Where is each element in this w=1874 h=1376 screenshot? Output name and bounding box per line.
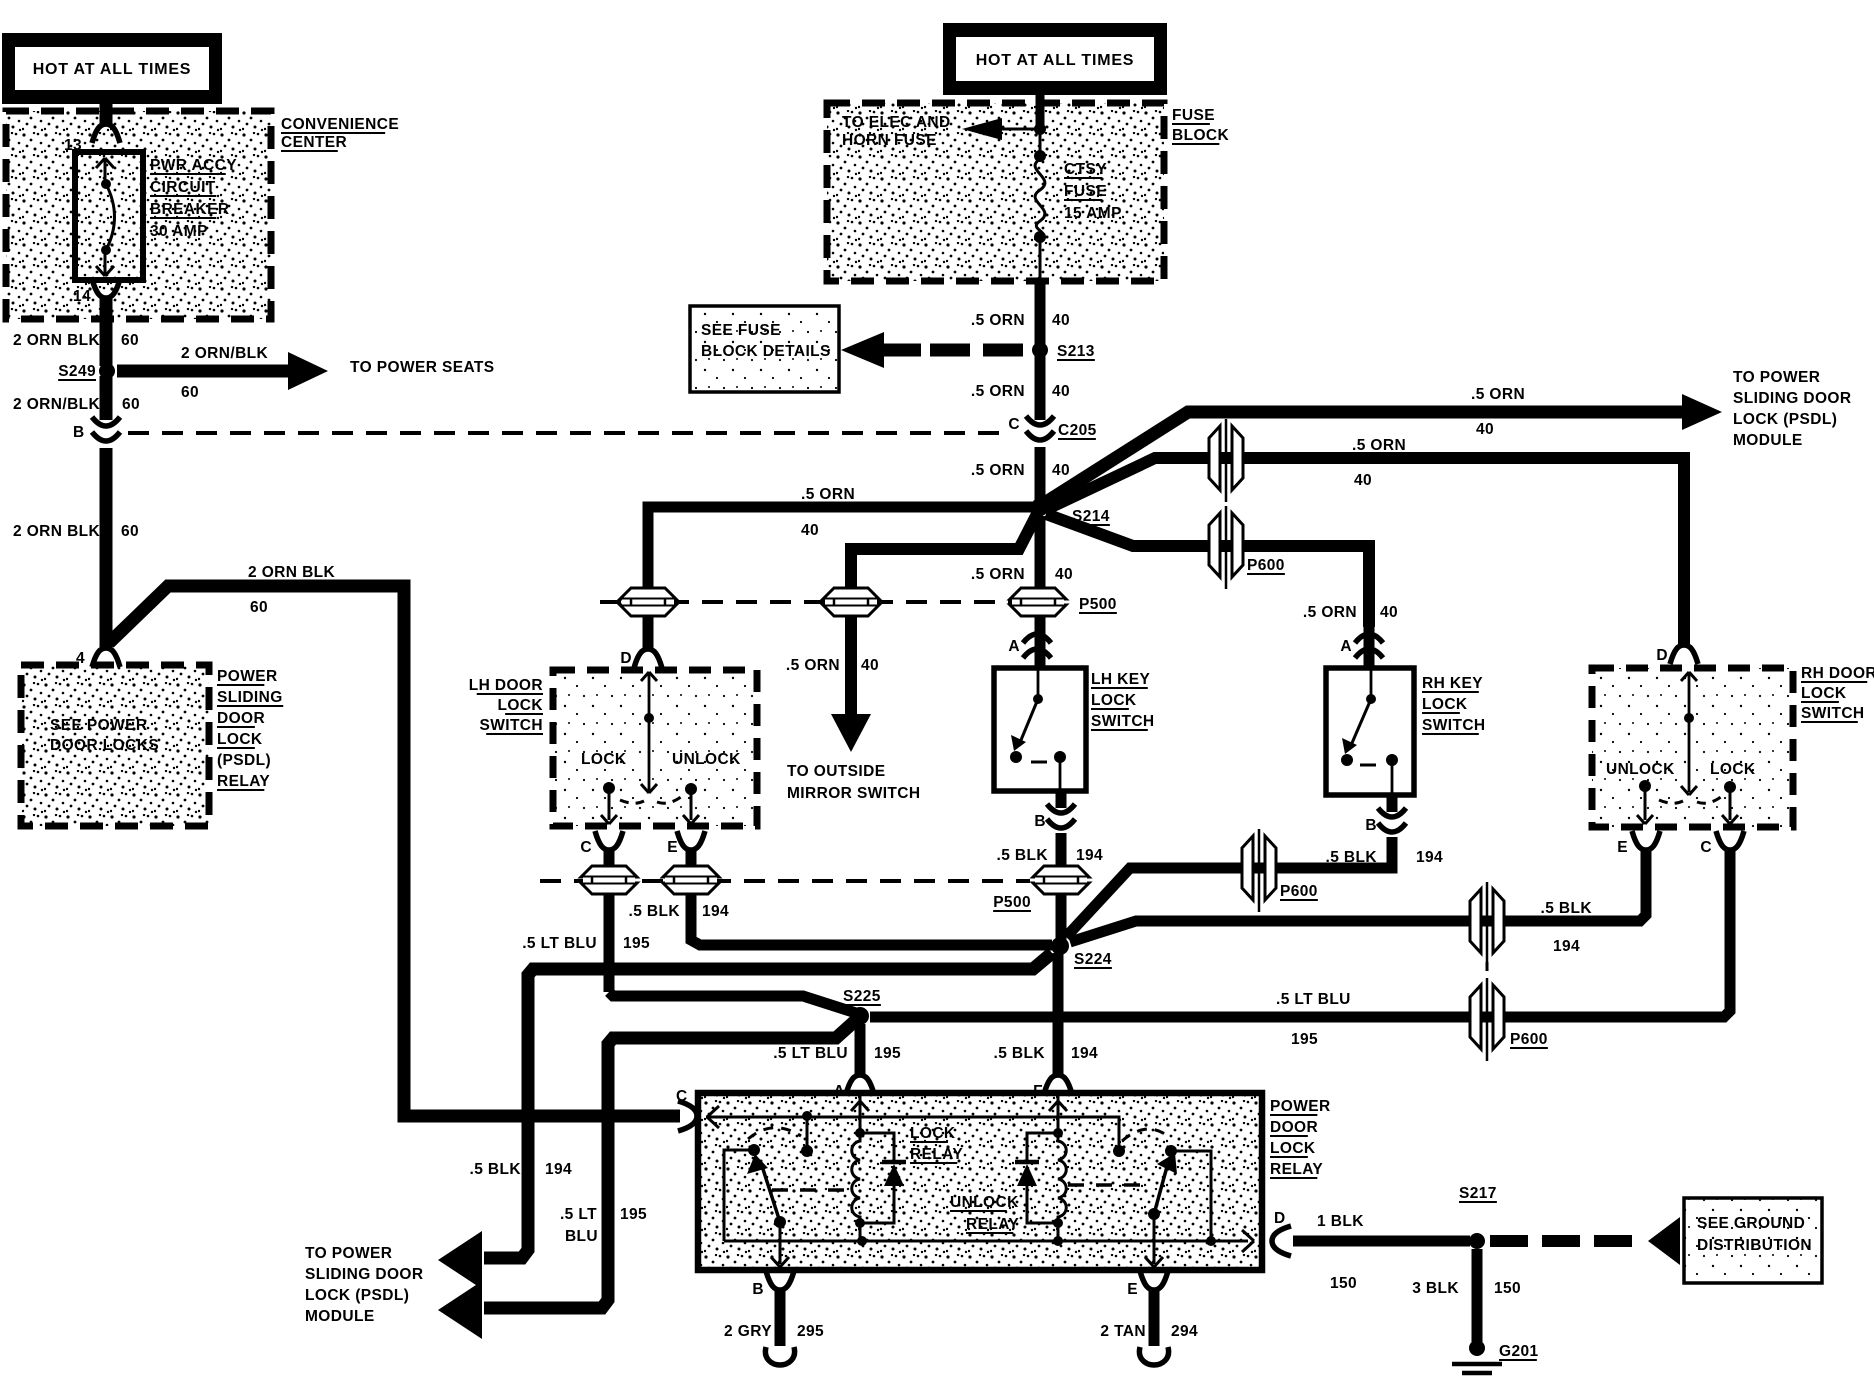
connector D of LH door lock switch — [634, 649, 662, 668]
lock relay armature — [762, 1166, 780, 1222]
svg-text:C: C — [580, 839, 592, 856]
unlock relay fixed contact — [1113, 1145, 1125, 1157]
wire .5 ORN 40 down to LH key lock switch pin A — [1035, 516, 1046, 590]
svg-text:.5 ORN: .5 ORN — [971, 383, 1025, 400]
pass-through grommet (upper P600) — [1225, 419, 1228, 502]
wire 2 ORN BLK 60 from breaker to S249 — [100, 296, 113, 366]
SEE GROUND DISTRIBUTION box — [1684, 1198, 1822, 1283]
wire .5 BLK 194 from E through grommet — [691, 848, 1052, 945]
lock relay armature contact — [748, 1144, 760, 1156]
connector C of LH door lock switch — [595, 831, 623, 850]
svg-text:BLOCK DETAILS: BLOCK DETAILS — [701, 343, 831, 360]
wire 2 TAN 294 — [1149, 1288, 1160, 1346]
connector at end of 2 TAN wire — [1139, 1347, 1168, 1365]
svg-text:RELAY: RELAY — [966, 1216, 1019, 1233]
CTSY FUSE 15 AMP fuse element — [1035, 159, 1045, 236]
dashed travel arcs — [1659, 800, 1683, 803]
svg-text:14: 14 — [73, 288, 91, 305]
RH KEY LOCK SWITCH box — [1326, 668, 1414, 795]
bulkhead dashed line P500 (lower row) — [540, 879, 1030, 883]
svg-text:150: 150 — [1330, 1275, 1357, 1292]
connector D of RH door lock switch — [1670, 645, 1698, 664]
svg-text:C: C — [1700, 839, 1712, 856]
wire .5 ORN 40 to RH door lock switch pin D — [1045, 458, 1684, 645]
svg-text:RELAY: RELAY — [910, 1146, 963, 1163]
svg-text:30 AMP: 30 AMP — [150, 223, 208, 240]
svg-text:.5 ORN: .5 ORN — [801, 486, 855, 503]
svg-text:LOCK: LOCK — [1270, 1140, 1316, 1157]
svg-text:E: E — [667, 839, 678, 856]
svg-text:S249: S249 — [58, 363, 96, 380]
lock relay fixed contact — [802, 1111, 812, 1121]
connector E of LH door lock switch — [677, 831, 705, 850]
svg-text:294: 294 — [1171, 1323, 1198, 1340]
wire .5 ORN 40 from C205 to S214 — [1035, 447, 1046, 503]
splice S213 — [1032, 342, 1048, 358]
svg-text:LOCK: LOCK — [217, 731, 263, 748]
wire .5 BLK 194 from E to S224 via grommet — [1070, 848, 1646, 942]
svg-text:194: 194 — [1553, 938, 1580, 955]
svg-text:CENTER: CENTER — [281, 134, 347, 151]
branch to elec and horn fuse — [1002, 128, 1040, 131]
svg-text:TO POWER: TO POWER — [305, 1245, 392, 1262]
hot-at-all-times feed box (left) — [2, 33, 222, 104]
switch plunger (center, from D) — [1681, 672, 1689, 681]
svg-text:40: 40 — [861, 657, 879, 674]
svg-text:BREAKER: BREAKER — [150, 201, 229, 218]
svg-text:LOCK: LOCK — [581, 751, 627, 768]
svg-text:DOOR: DOOR — [1270, 1119, 1318, 1136]
svg-text:(PSDL): (PSDL) — [217, 752, 271, 769]
svg-text:POWER: POWER — [1270, 1098, 1331, 1115]
svg-text:SLIDING DOOR: SLIDING DOOR — [1733, 390, 1851, 407]
svg-text:.5 BLK: .5 BLK — [1541, 900, 1593, 917]
svg-text:C: C — [676, 1088, 688, 1105]
svg-text:G201: G201 — [1499, 1343, 1539, 1360]
svg-text:FUSE: FUSE — [1172, 107, 1215, 124]
svg-text:SWITCH: SWITCH — [1801, 705, 1865, 722]
svg-text:CONVENIENCE: CONVENIENCE — [281, 116, 399, 133]
svg-text:S214: S214 — [1072, 508, 1110, 525]
svg-text:.5 BLK: .5 BLK — [997, 847, 1049, 864]
fuse block box — [827, 103, 1164, 281]
convenience center box — [6, 111, 271, 319]
svg-text:LH KEY: LH KEY — [1091, 671, 1151, 688]
arrow to outside mirror switch — [831, 714, 871, 752]
svg-text:2 ORN BLK: 2 ORN BLK — [248, 564, 336, 581]
svg-text:C205: C205 — [1058, 422, 1097, 439]
svg-text:HORN FUSE: HORN FUSE — [842, 132, 937, 149]
svg-text:LOCK: LOCK — [497, 697, 543, 714]
POWER DOOR LOCK RELAY box — [698, 1093, 1262, 1270]
LH KEY LOCK SWITCH box — [994, 668, 1086, 791]
svg-text:60: 60 — [181, 384, 199, 401]
unlock relay diode — [1027, 1133, 1058, 1160]
svg-text:40: 40 — [1055, 566, 1073, 583]
svg-text:LOCK: LOCK — [1801, 685, 1847, 702]
svg-text:194: 194 — [702, 903, 729, 920]
svg-text:CIRCUIT: CIRCUIT — [150, 179, 216, 196]
relay pin B wire — [779, 1222, 782, 1264]
internal feed rail from C — [706, 1117, 1119, 1147]
LOCK contact of RH door switch — [1724, 781, 1736, 793]
svg-text:195: 195 — [874, 1045, 901, 1062]
svg-text:LH DOOR: LH DOOR — [469, 677, 543, 694]
svg-text:195: 195 — [623, 935, 650, 952]
svg-text:194: 194 — [1416, 849, 1443, 866]
switch contacts inside LH key switch — [1037, 668, 1040, 695]
svg-text:RH KEY: RH KEY — [1422, 675, 1483, 692]
relay pin A wire and lock relay coil — [859, 1093, 862, 1133]
svg-text:PWR ACCY: PWR ACCY — [150, 157, 237, 174]
svg-text:60: 60 — [122, 396, 140, 413]
svg-text:.5 ORN: .5 ORN — [971, 462, 1025, 479]
svg-text:RELAY: RELAY — [1270, 1161, 1323, 1178]
in-line connector C205 — [1026, 416, 1054, 425]
wire .5 BLK 194 from S224 down to relay pin F — [1053, 953, 1064, 1076]
wire from LH door C into S225 — [609, 992, 856, 1013]
svg-text:BLU: BLU — [565, 1228, 598, 1245]
switch contacts inside RH key switch — [1370, 668, 1373, 695]
splice dot S225 — [851, 1007, 869, 1025]
switch plunger (center, from D) — [641, 672, 649, 681]
svg-text:60: 60 — [250, 599, 268, 616]
connector B of RH key lock switch — [1387, 795, 1398, 812]
UNLOCK contact of RH door switch — [1639, 780, 1651, 792]
dashed travel arcs — [620, 800, 644, 803]
svg-text:40: 40 — [1476, 421, 1494, 438]
svg-text:SWITCH: SWITCH — [479, 717, 543, 734]
svg-text:RH DOOR: RH DOOR — [1801, 665, 1874, 682]
lock relay diode — [860, 1133, 894, 1160]
wire 2 GRY 295 — [775, 1288, 786, 1346]
connector E of door lock relay — [1140, 1271, 1168, 1290]
svg-text:B: B — [1365, 817, 1377, 834]
svg-text:.5 BLK: .5 BLK — [629, 903, 681, 920]
wire .5 ORN 40 to outside mirror switch — [851, 512, 1038, 590]
svg-text:B: B — [73, 424, 85, 441]
wire .5 LT BLU 195 from C to S225 via P600 — [870, 848, 1730, 1017]
junction dots above CTSY fuse — [1034, 123, 1046, 135]
dashed arc over unlock armature — [1122, 1129, 1168, 1141]
svg-text:60: 60 — [121, 332, 139, 349]
svg-text:P500: P500 — [1079, 596, 1117, 613]
svg-text:F: F — [1033, 1083, 1043, 1100]
svg-text:.5 ORN: .5 ORN — [1471, 386, 1525, 403]
svg-text:D: D — [1656, 647, 1668, 664]
svg-text:LOCK: LOCK — [1710, 761, 1756, 778]
wire from hot box to breaker pin 13 — [100, 104, 113, 126]
bulkhead dashed line P500 (upper row) — [600, 600, 1012, 604]
svg-text:LOCK: LOCK — [910, 1125, 956, 1142]
svg-text:S224: S224 — [1074, 951, 1112, 968]
svg-text:.5 ORN: .5 ORN — [1303, 604, 1357, 621]
svg-text:S217: S217 — [1459, 1185, 1497, 1202]
internal ground rail to D — [724, 1240, 1248, 1243]
svg-text:CTSY: CTSY — [1064, 161, 1107, 178]
connector D of door lock relay — [1272, 1226, 1291, 1256]
svg-text:LOCK (PSDL): LOCK (PSDL) — [1733, 411, 1837, 428]
svg-text:2 ORN/BLK: 2 ORN/BLK — [13, 396, 101, 413]
dashed wire to SEE FUSE BLOCK DETAILS — [930, 344, 1028, 357]
wire 2 ORN BLK 60 from B down to PSDL relay pin 4 — [100, 448, 113, 648]
svg-text:P600: P600 — [1247, 557, 1285, 574]
branch wire 2 ORN BLK 60 to door lock relay pin C — [109, 586, 680, 1116]
circuit breaker PWR ACCY 30A — [75, 152, 143, 280]
dashed harness line from B to C205 — [128, 431, 1004, 435]
connector at end of 2 GRY wire — [765, 1347, 794, 1365]
grommet on mirror switch wire — [845, 590, 857, 714]
connector C of RH door lock switch — [1716, 831, 1744, 850]
svg-text:SWITCH: SWITCH — [1091, 713, 1155, 730]
dashed wire to SEE GROUND DISTRIBUTION — [1490, 1235, 1640, 1247]
splice S217 — [1469, 1233, 1485, 1249]
ground G201 — [1469, 1340, 1485, 1356]
wire 2 ORN/BLK 60 to power seats — [117, 365, 290, 378]
wire 1 BLK 150 from relay D to S217 — [1293, 1236, 1470, 1247]
svg-text:SEE POWER: SEE POWER — [50, 717, 147, 734]
svg-text:DOOR: DOOR — [217, 710, 265, 727]
connector pin 4 of PSDL relay — [92, 648, 120, 667]
svg-text:MODULE: MODULE — [305, 1308, 375, 1325]
wire .5 BLK 194 from RH key B to S224 via P600 — [1066, 837, 1392, 937]
svg-text:3 BLK: 3 BLK — [1412, 1280, 1459, 1297]
svg-text:RELAY: RELAY — [217, 773, 270, 790]
svg-text:FUSE: FUSE — [1064, 183, 1107, 200]
wire from hot box into fuse block — [1036, 95, 1045, 129]
svg-text:HOT AT ALL TIMES: HOT AT ALL TIMES — [976, 52, 1135, 69]
svg-text:.5 ORN: .5 ORN — [971, 312, 1025, 329]
svg-text:SEE FUSE: SEE FUSE — [701, 322, 781, 339]
svg-text:60: 60 — [121, 523, 139, 540]
svg-text:40: 40 — [1052, 312, 1070, 329]
svg-text:194: 194 — [1076, 847, 1103, 864]
svg-text:TO POWER: TO POWER — [1733, 369, 1820, 386]
bulkhead dashed link — [1486, 962, 1489, 976]
connector E of RH door lock switch — [1632, 831, 1660, 850]
svg-text:MODULE: MODULE — [1733, 432, 1803, 449]
UNLOCK contact of LH door switch — [685, 783, 697, 795]
svg-text:295: 295 — [797, 1323, 824, 1340]
wire 2 ORN/BLK 60 from S249 to connector B — [100, 376, 113, 420]
svg-text:2 TAN: 2 TAN — [1100, 1323, 1146, 1340]
connector C of door lock relay — [678, 1101, 697, 1131]
connector pin 13 — [92, 124, 120, 143]
svg-text:TO ELEC AND: TO ELEC AND — [842, 114, 951, 131]
svg-text:.5 BLK: .5 BLK — [470, 1161, 522, 1178]
svg-text:D: D — [1274, 1210, 1286, 1227]
svg-text:2 ORN/BLK: 2 ORN/BLK — [181, 345, 269, 362]
connector F of door lock relay — [1044, 1075, 1072, 1094]
svg-text:LOCK: LOCK — [1091, 692, 1137, 709]
svg-text:S213: S213 — [1057, 343, 1095, 360]
wire .5 ORN 40 to RH key lock switch pin A — [1046, 514, 1369, 627]
svg-text:E: E — [1127, 1281, 1138, 1298]
svg-text:A: A — [1008, 638, 1020, 655]
relay pin F wire and unlock relay coil — [1057, 1093, 1060, 1133]
svg-text:B: B — [1034, 813, 1046, 830]
RH DOOR LOCK SWITCH box — [1592, 668, 1793, 827]
svg-text:40: 40 — [1380, 604, 1398, 621]
connector A of door lock relay — [846, 1075, 874, 1094]
dashed arc over lock armature — [748, 1128, 801, 1139]
svg-text:.5 LT BLU: .5 LT BLU — [1276, 991, 1351, 1008]
wire .5 LT BLU 195 from S225 down to relay pin A — [855, 1024, 866, 1076]
svg-text:SWITCH: SWITCH — [1422, 717, 1486, 734]
svg-text:S225: S225 — [843, 988, 881, 1005]
svg-text:.5 ORN: .5 ORN — [786, 657, 840, 674]
svg-text:.5 ORN: .5 ORN — [1352, 437, 1406, 454]
SEE FUSE BLOCK DETAILS box — [690, 306, 839, 392]
svg-text:P600: P600 — [1280, 883, 1318, 900]
svg-text:DOOR LOCKS: DOOR LOCKS — [50, 737, 159, 754]
svg-text:TO POWER SEATS: TO POWER SEATS — [350, 359, 495, 376]
svg-text:A: A — [1340, 638, 1352, 655]
svg-text:LOCK (PSDL): LOCK (PSDL) — [305, 1287, 409, 1304]
dashed mechanical links — [772, 1188, 850, 1192]
svg-text:.5 BLK: .5 BLK — [1326, 849, 1378, 866]
svg-text:B: B — [752, 1281, 764, 1298]
svg-text:E: E — [1617, 839, 1628, 856]
splice S224 — [1051, 937, 1069, 955]
wire .5 BLK 194 from B through P500 grommet to S224 — [1056, 833, 1067, 942]
svg-text:MIRROR SWITCH: MIRROR SWITCH — [787, 785, 921, 802]
SEE POWER DOOR LOCKS box (PSDL relay) — [21, 665, 209, 826]
svg-text:15 AMP: 15 AMP — [1064, 205, 1122, 222]
unlock relay armature contact — [1165, 1145, 1177, 1157]
svg-text:P600: P600 — [1510, 1031, 1548, 1048]
svg-text:2 GRY: 2 GRY — [724, 1323, 772, 1340]
svg-text:.5 LT BLU: .5 LT BLU — [773, 1045, 848, 1062]
svg-text:TO OUTSIDE: TO OUTSIDE — [787, 763, 885, 780]
svg-text:.5 BLK: .5 BLK — [994, 1045, 1046, 1062]
svg-text:POWER: POWER — [217, 668, 278, 685]
connector A of RH key lock switch — [1355, 634, 1383, 643]
splice dot S214 — [1031, 498, 1049, 516]
svg-text:150: 150 — [1494, 1280, 1521, 1297]
svg-text:.5 LT BLU: .5 LT BLU — [522, 935, 597, 952]
svg-text:UNLOCK: UNLOCK — [1606, 761, 1675, 778]
svg-text:40: 40 — [801, 522, 819, 539]
svg-text:40: 40 — [1052, 462, 1070, 479]
wire .5 ORN 40 from fuse to S213 — [1039, 240, 1042, 281]
svg-text:40: 40 — [1354, 472, 1372, 489]
svg-text:194: 194 — [545, 1161, 572, 1178]
relay pin E wire — [1153, 1214, 1156, 1264]
grommet P600 — [1225, 506, 1228, 589]
svg-text:2 ORN BLK: 2 ORN BLK — [13, 523, 101, 540]
svg-text:P500: P500 — [993, 894, 1031, 911]
svg-text:195: 195 — [1291, 1031, 1318, 1048]
hot-at-all-times feed box (middle) — [943, 23, 1167, 95]
wire .5 BLK to PSDL module (left-down from S224) — [484, 953, 1052, 1258]
svg-text:C: C — [1008, 416, 1020, 433]
svg-text:40: 40 — [1052, 383, 1070, 400]
svg-text:LOCK: LOCK — [1422, 696, 1468, 713]
svg-text:.5 ORN: .5 ORN — [971, 566, 1025, 583]
unlock relay armature — [1154, 1163, 1168, 1214]
wire 3 BLK 150 to ground — [1472, 1249, 1483, 1342]
grommet P500 on LH key switch wire — [1035, 590, 1046, 625]
svg-text:.5 LT: .5 LT — [560, 1206, 597, 1223]
LH DOOR LOCK SWITCH box — [553, 670, 757, 826]
svg-text:A: A — [833, 1083, 845, 1100]
svg-text:SLIDING DOOR: SLIDING DOOR — [305, 1266, 423, 1283]
in-line connector B — [92, 417, 120, 426]
connector B of LH key lock switch — [1056, 791, 1067, 808]
splice S249 — [99, 363, 115, 379]
connector B of door lock relay — [766, 1271, 794, 1290]
wire from S225 to PSDL module — [484, 1020, 856, 1308]
grommet P500 on LH door switch wire — [643, 590, 654, 648]
svg-text:2 ORN BLK: 2 ORN BLK — [13, 332, 101, 349]
wire .5 ORN 40 to LH door lock switch pin D — [648, 507, 1036, 590]
svg-text:UNLOCK: UNLOCK — [672, 751, 741, 768]
svg-text:D: D — [620, 650, 632, 667]
svg-text:BLOCK: BLOCK — [1172, 127, 1230, 144]
svg-text:194: 194 — [1071, 1045, 1098, 1062]
svg-text:SLIDING: SLIDING — [217, 689, 283, 706]
svg-text:DISTRIBUTION: DISTRIBUTION — [1697, 1237, 1812, 1254]
connector A of LH key lock switch — [1023, 634, 1051, 643]
svg-text:UNLOCK: UNLOCK — [950, 1194, 1019, 1211]
svg-text:SEE GROUND: SEE GROUND — [1697, 1215, 1805, 1232]
svg-text:195: 195 — [620, 1206, 647, 1223]
connector pin 14 — [92, 279, 120, 298]
svg-text:1 BLK: 1 BLK — [1317, 1213, 1364, 1230]
LOCK contact of LH door switch — [603, 782, 615, 794]
wire .5 LT BLU from C through grommet — [604, 848, 615, 992]
wire .5 ORN 40 to PSDL module (top right arrow) — [1043, 412, 1684, 504]
svg-text:HOT AT ALL TIMES: HOT AT ALL TIMES — [33, 61, 192, 78]
